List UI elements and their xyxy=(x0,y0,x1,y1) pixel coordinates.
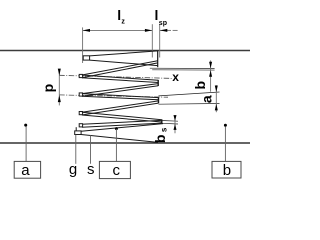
box c xyxy=(99,161,130,178)
centerline 2 (dash-dot) xyxy=(59,95,168,97)
band thickness lines bottom (b_s) xyxy=(162,120,178,123)
coil stroke S8 xyxy=(82,120,162,124)
svg-text:x: x xyxy=(172,70,179,84)
right end edge R2 xyxy=(158,97,160,103)
svg-text:b: b xyxy=(192,81,208,90)
leader s xyxy=(90,135,92,164)
dimension b_s xyxy=(174,115,176,133)
coil stroke S4 xyxy=(82,84,158,94)
leader a xyxy=(25,127,27,162)
right end edge R3 (b_s end) xyxy=(161,119,163,123)
centerline x (dash-dot 1) xyxy=(59,75,172,78)
dimension b xyxy=(210,60,212,91)
svg-text:s: s xyxy=(160,127,169,132)
coil stroke S5 xyxy=(82,94,159,98)
lower diagonal of inner band xyxy=(81,135,158,143)
svg-text:z: z xyxy=(121,18,125,25)
wire xyxy=(0,50,250,52)
svg-text:p: p xyxy=(40,84,56,93)
connector to inner end xyxy=(75,127,77,131)
box a xyxy=(14,161,40,178)
coil stroke S7 xyxy=(82,112,162,120)
junction dot c xyxy=(115,127,118,130)
svg-text:a: a xyxy=(198,95,214,103)
band thickness lines (b) xyxy=(150,67,215,69)
spring coil cross-section rect top-left xyxy=(83,56,89,60)
dimension l_sp xyxy=(160,29,171,31)
svg-text:b: b xyxy=(223,162,231,179)
svg-text:sp: sp xyxy=(159,20,167,27)
reference dot right xyxy=(224,124,227,127)
label a (rotated) xyxy=(198,95,214,103)
upper diagonal of inner band xyxy=(81,124,163,132)
leader c xyxy=(115,129,117,161)
pitch lines right (a) xyxy=(159,92,220,96)
label p (rotated) xyxy=(40,84,56,93)
inner end cross-section rect xyxy=(75,131,81,135)
coil stroke S1 xyxy=(90,51,158,56)
box b xyxy=(212,161,241,178)
right end edge A0 xyxy=(157,51,159,67)
dimension l_z xyxy=(83,24,160,63)
leader b xyxy=(224,127,226,162)
coil stroke S6 xyxy=(82,101,159,112)
leader g xyxy=(75,135,77,164)
right end edge R1 xyxy=(157,80,159,86)
coil stroke S2 xyxy=(82,61,158,75)
left coil rect L4 xyxy=(79,124,82,127)
label b (rotated) xyxy=(192,81,208,90)
svg-text:s: s xyxy=(87,161,95,178)
svg-text:a: a xyxy=(21,162,30,179)
left coil rect L2 xyxy=(79,93,82,96)
dimension p xyxy=(58,70,60,105)
svg-text:l: l xyxy=(155,7,159,23)
coil stroke S3 xyxy=(82,75,158,80)
reference dot left xyxy=(24,124,27,127)
left coil rect L1 xyxy=(79,74,82,77)
left coil rect L3 xyxy=(79,112,82,115)
label b_s (rotated) xyxy=(152,127,168,143)
svg-text:g: g xyxy=(69,161,77,178)
svg-text:c: c xyxy=(113,162,121,179)
ground line xyxy=(0,142,250,144)
svg-text:b: b xyxy=(152,135,168,144)
dimension a xyxy=(215,85,217,112)
